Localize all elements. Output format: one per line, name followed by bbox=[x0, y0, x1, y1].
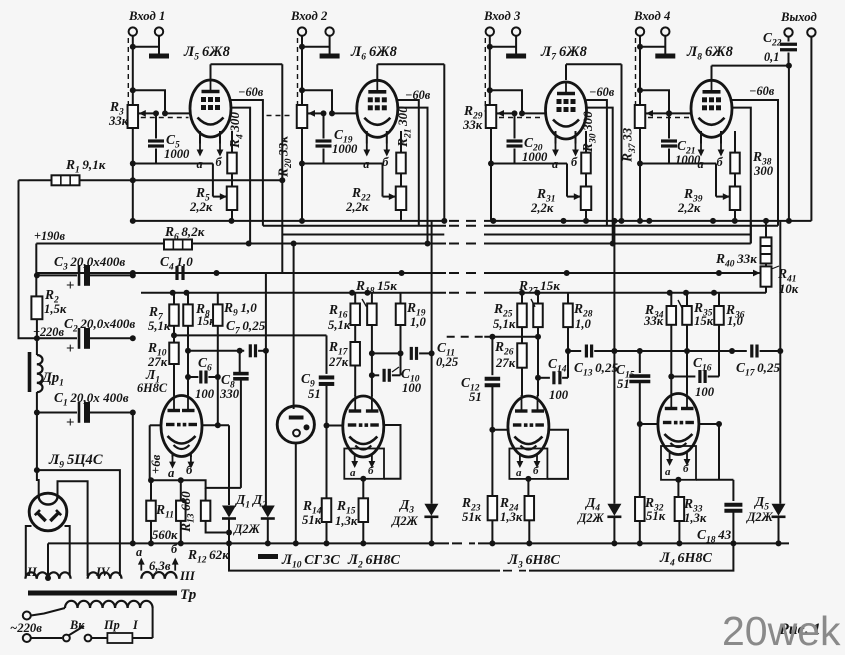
svg-text:−60в: −60в bbox=[749, 84, 775, 98]
resistor R17 27к bbox=[328, 325, 360, 396]
capacitor input stage 2 bbox=[316, 110, 332, 163]
resistor R7 5,1к bbox=[148, 293, 179, 333]
resistor R33 1,3к bbox=[675, 496, 707, 546]
svg-text:2,2к: 2,2к bbox=[345, 200, 369, 214]
wire input 2 down bbox=[299, 36, 305, 105]
svg-text:Выход: Выход bbox=[780, 10, 817, 24]
wire bus B1 (common line y=221) bbox=[133, 220, 812, 222]
svg-text:б: б bbox=[368, 465, 374, 477]
wire input 3 terminal2 to ground bbox=[490, 36, 516, 51]
wire R18 column to tube bbox=[369, 325, 375, 396]
svg-text:51к: 51к bbox=[302, 513, 322, 527]
svg-text:Д2Ж: Д2Ж bbox=[577, 511, 605, 525]
svg-text:560к: 560к bbox=[152, 528, 178, 542]
watermark 20wek bbox=[722, 608, 841, 654]
label R21 300 rotated bbox=[395, 106, 414, 148]
label cap C20 bbox=[522, 135, 548, 164]
svg-text:1,3к: 1,3к bbox=[335, 514, 358, 528]
wire bus B6 (y=293) bbox=[141, 292, 766, 294]
resistor R13a 680 bbox=[176, 477, 186, 546]
label Вход 1 bbox=[128, 9, 165, 23]
svg-text:~220в: ~220в bbox=[10, 621, 42, 635]
wire tube top-right to winding IV left lead bbox=[58, 481, 88, 576]
svg-text:б: б bbox=[571, 155, 578, 169]
diode D3 (Д3 Д2Ж) bbox=[391, 221, 438, 547]
wire R28 column down bbox=[565, 327, 571, 378]
label pot R29 bbox=[462, 103, 483, 132]
svg-text:1000: 1000 bbox=[332, 142, 358, 156]
svg-text:Д2Ж: Д2Ж bbox=[746, 510, 774, 524]
svg-text:100: 100 bbox=[549, 388, 569, 402]
resistor R15 1,3к bbox=[335, 498, 368, 546]
label ~220в bbox=[10, 621, 42, 635]
svg-text:20wek: 20wek bbox=[722, 608, 841, 654]
svg-text:а: а bbox=[350, 467, 356, 479]
label Л1 6Н8С bbox=[137, 367, 168, 395]
potentiometer input stage 3 bbox=[486, 105, 497, 128]
svg-text:5,1к: 5,1к bbox=[148, 319, 171, 333]
wire -60v stage 1 bbox=[231, 100, 263, 226]
svg-text:б: б bbox=[717, 155, 724, 169]
svg-text:Л10 СГ 3С: Л10 СГ 3С bbox=[281, 552, 340, 571]
svg-text:2,2к: 2,2к bbox=[189, 200, 213, 214]
svg-text:330: 330 bbox=[219, 387, 240, 401]
label Л9 5Ц4С bbox=[48, 452, 103, 471]
wire anode 2 bbox=[377, 64, 444, 80]
svg-text:б: б bbox=[171, 542, 178, 556]
transformer winding IV bbox=[88, 565, 122, 579]
svg-text:1,0: 1,0 bbox=[410, 315, 427, 329]
svg-text:Л4 6Н8С: Л4 6Н8С bbox=[659, 550, 712, 569]
transformer core bbox=[28, 587, 197, 603]
wire output pin2 down bbox=[810, 37, 812, 221]
wire grid jog 4 bbox=[640, 90, 672, 116]
svg-text:51к: 51к bbox=[462, 510, 482, 524]
svg-text:2,2к: 2,2к bbox=[677, 201, 701, 215]
svg-text:51: 51 bbox=[617, 377, 630, 391]
label R38 300 bbox=[752, 149, 774, 178]
wire +190v rail corner at x=36.3 bbox=[35, 244, 37, 297]
wire anode column stage 3 bbox=[619, 64, 625, 224]
label Л3 6Н8С bbox=[507, 552, 560, 571]
resistor R40 33к bbox=[715, 221, 772, 270]
anode line left of Л1 box top bbox=[150, 424, 161, 426]
capacitor C7 0,25 bbox=[185, 344, 266, 357]
svg-text:51: 51 bbox=[469, 390, 482, 404]
wire input 3 down bbox=[487, 36, 493, 105]
anode line right of Л2 bbox=[384, 425, 401, 479]
svg-text:27к: 27к bbox=[495, 356, 516, 370]
pentode tube Л6 (6Ж8) bbox=[350, 44, 398, 137]
capacitor C12 51 bbox=[447, 334, 541, 430]
capacitor C22 0,1 bbox=[763, 30, 797, 66]
label +6в rotated bbox=[149, 454, 163, 474]
resistor R28 1,0 bbox=[563, 293, 593, 331]
label cathode pot R39 bbox=[677, 186, 703, 215]
filament arrows Л3 bbox=[516, 455, 540, 479]
wire screen stage 1 bbox=[231, 108, 250, 244]
svg-text:Л6 6Ж8: Л6 6Ж8 bbox=[350, 44, 398, 63]
svg-text:II: II bbox=[26, 565, 38, 579]
wire bottom bus B7 bbox=[48, 542, 789, 544]
potentiometer input stage 2 bbox=[297, 105, 308, 128]
wire x=36.3 below R2 bbox=[36, 319, 38, 355]
svg-text:10к: 10к bbox=[779, 282, 799, 296]
wire B7 left end to winding II centre tap bbox=[45, 543, 51, 581]
svg-text:100: 100 bbox=[195, 387, 215, 401]
wire grid2 bypass feed line y=335 bbox=[171, 332, 327, 338]
wire -60v stage 3 bbox=[587, 100, 607, 226]
svg-text:б: б bbox=[533, 465, 539, 477]
svg-text:Вход 2: Вход 2 bbox=[290, 9, 328, 23]
svg-text:−60в: −60в bbox=[405, 88, 431, 102]
svg-text:−60в: −60в bbox=[238, 85, 264, 99]
box around Л4 cathode area bbox=[661, 446, 696, 480]
wire R9 column bbox=[215, 326, 221, 429]
capacitor input stage 1 bbox=[148, 110, 164, 163]
wire Л2 cathode to R15 bbox=[360, 476, 366, 499]
wire input 4 terminal2 to ground bbox=[640, 36, 665, 51]
wire anode 3 bbox=[566, 64, 622, 80]
label cathode pot R31 bbox=[530, 186, 556, 215]
label pot R20 rotated bbox=[276, 136, 295, 178]
label -60в stage 1 bbox=[238, 85, 264, 99]
resistor 300 stage 1 bbox=[227, 131, 237, 173]
svg-text:33к: 33к bbox=[462, 118, 483, 132]
wire grid jog 3 bbox=[490, 90, 525, 116]
svg-text:а: а bbox=[197, 157, 203, 171]
capacitor C16 100 bbox=[671, 355, 719, 399]
ground input 3 bbox=[506, 51, 526, 56]
svg-text:б: б bbox=[382, 155, 389, 169]
svg-text:0,25: 0,25 bbox=[436, 355, 459, 369]
wire cathode-feedback line 3 bbox=[488, 128, 581, 200]
junction dots on B6 bbox=[170, 290, 717, 296]
label cap C5 bbox=[164, 132, 190, 161]
label cathode pot R22 bbox=[345, 185, 371, 214]
wire rectifier cathode rail to tube top bbox=[34, 392, 40, 497]
anode line right of Л4 bbox=[699, 421, 722, 480]
pentode tube Л8 (6Ж8) bbox=[686, 44, 734, 137]
svg-text:1,5к: 1,5к bbox=[44, 302, 67, 316]
wire box bottom to C18 bbox=[696, 479, 733, 481]
svg-text:27к: 27к bbox=[328, 355, 349, 369]
filament arrows Л2 bbox=[350, 455, 375, 479]
label Д1 Д2 bbox=[234, 492, 267, 511]
svg-text:+6в: +6в bbox=[149, 454, 163, 474]
cathode pot stage 3 bbox=[581, 173, 592, 221]
input terminal Вход4 pin 2 bbox=[661, 27, 669, 35]
capacitor C3 (20,0x400в) bbox=[34, 254, 136, 294]
wire pot column 1 to B1 bbox=[132, 164, 134, 221]
junction dots on B4 bbox=[246, 241, 616, 247]
capacitor C1 (20,0x400в) bbox=[34, 390, 136, 431]
diode D4 (Д4 Д2Ж) bbox=[577, 221, 621, 547]
potentiometer R41 10к bbox=[716, 264, 799, 297]
capacitor C8 330 bbox=[219, 351, 249, 488]
voltage regulator tube Л10 (СГ3С) bbox=[277, 406, 314, 443]
wire cathode-feedback line 4 bbox=[637, 128, 730, 200]
cathode pot stage 1 bbox=[227, 173, 238, 221]
svg-text:Д2Ж: Д2Ж bbox=[391, 514, 419, 528]
svg-text:33к: 33к bbox=[643, 314, 664, 328]
wire bus B2 (-60v line y=226) bbox=[263, 225, 778, 227]
wire R19 column down bbox=[398, 325, 404, 375]
choke Dr1 (Др1) bbox=[30, 352, 64, 392]
wire input 2 shield dashed bbox=[297, 38, 299, 112]
wire bus B4 (+190v rail) bbox=[36, 221, 751, 244]
fuse Pr (Пр) bbox=[91, 608, 152, 643]
label cap C19 bbox=[332, 127, 358, 156]
svg-text:100: 100 bbox=[695, 385, 715, 399]
wire -60v stage 2 bbox=[398, 100, 419, 226]
svg-text:1000: 1000 bbox=[522, 150, 548, 164]
wire lower terminal to switch bbox=[31, 637, 62, 639]
filament arrows Л1 bbox=[168, 454, 194, 480]
svg-text:1,0: 1,0 bbox=[575, 317, 592, 331]
svg-text:1,3к: 1,3к bbox=[684, 511, 707, 525]
capacitor C17 0,25 bbox=[687, 345, 780, 379]
resistor R34 33к bbox=[643, 293, 676, 394]
svg-text:IV: IV bbox=[95, 565, 111, 579]
label +190в bbox=[34, 229, 65, 243]
winding III terminal a arrow bbox=[136, 545, 145, 571]
wire anode 4 to C22 bbox=[712, 63, 792, 80]
input terminal Вход1 pin 2 bbox=[155, 27, 163, 35]
wire left feedback rail x=18.5 bbox=[19, 180, 37, 338]
label -60в stage 4 bbox=[749, 84, 775, 98]
label +220в bbox=[33, 325, 64, 339]
wire cathode-feedback line 2 bbox=[299, 128, 396, 200]
wire anode column stage 1 bbox=[281, 64, 283, 273]
svg-text:а: а bbox=[552, 157, 558, 171]
svg-text:1,3к: 1,3к bbox=[500, 510, 523, 524]
wire input 1 shield dashed bbox=[127, 38, 129, 112]
resistor R26 27к bbox=[494, 327, 527, 396]
potentiometer input stage 4 bbox=[635, 105, 646, 128]
rectifier tube L9 (Л9) bbox=[29, 493, 67, 531]
wire grid 2 with wiper arrow bbox=[267, 110, 357, 117]
resistor 300 stage 4 bbox=[730, 131, 740, 173]
pentode tube Л5 (6Ж8) bbox=[183, 44, 231, 137]
filament arrows stage 2 bbox=[363, 131, 390, 171]
wire bottom return B8 bbox=[229, 543, 733, 570]
label R4 300 rotated bbox=[227, 112, 246, 149]
cathode pot stage 2 bbox=[396, 173, 407, 221]
wire R8 column to tube bbox=[185, 326, 191, 396]
capacitor input stage 3 bbox=[507, 110, 523, 163]
resistor R9 1,0 bbox=[213, 293, 257, 326]
capacitor C4 1,0 bbox=[130, 254, 570, 280]
winding III terminal b arrow bbox=[171, 542, 179, 571]
triode tube Л1 (6Н8С) bbox=[161, 395, 202, 457]
input terminal Вход1 pin 1 bbox=[129, 27, 137, 35]
svg-text:0,1: 0,1 bbox=[764, 50, 779, 64]
diode D2 (Д2 Д2Ж) bbox=[261, 273, 275, 546]
caption Рис. 1 bbox=[778, 621, 821, 638]
wire bus B5 (y=273) bbox=[36, 272, 754, 274]
svg-text:б: б bbox=[186, 463, 193, 477]
svg-text:Тр: Тр bbox=[180, 587, 197, 603]
resistor R32 51к bbox=[635, 495, 666, 546]
svg-text:Л9 5Ц4С: Л9 5Ц4С bbox=[48, 452, 103, 471]
wire anode column stage 4 bbox=[788, 66, 790, 221]
svg-text:51к: 51к bbox=[646, 509, 666, 523]
svg-text:−60в: −60в bbox=[589, 85, 615, 99]
svg-text:5,1к: 5,1к bbox=[328, 318, 351, 332]
triode tube Л4 (6Н8С) bbox=[658, 393, 713, 569]
resistor R10 27к bbox=[147, 326, 179, 396]
diode D1 (Д1 Д2Ж) bbox=[222, 505, 236, 547]
output terminal Выход pin2 bbox=[807, 28, 815, 36]
wire input 1 terminal2 to ground bbox=[133, 36, 159, 51]
svg-text:Д2Ж: Д2Ж bbox=[233, 522, 261, 536]
svg-text:Вход 1: Вход 1 bbox=[128, 9, 165, 23]
svg-text:6,3в: 6,3в bbox=[149, 559, 171, 573]
label -60в stage 3 bbox=[589, 85, 615, 99]
input terminal Вход3 pin 1 bbox=[486, 27, 494, 35]
wire screen stage 4 bbox=[732, 108, 751, 244]
wire input 2 terminal2 to ground bbox=[302, 36, 330, 51]
wire grid jog 1 bbox=[133, 90, 168, 116]
svg-text:51: 51 bbox=[308, 387, 321, 401]
resistor R19 1,0 bbox=[396, 293, 427, 329]
svg-text:Пр: Пр bbox=[103, 618, 120, 632]
svg-text:33к: 33к bbox=[108, 114, 129, 128]
capacitor C11 0,25 bbox=[372, 340, 459, 369]
svg-text:а: а bbox=[665, 466, 671, 478]
wire anode column stage 2 bbox=[441, 64, 447, 224]
capacitor C2 (20,0x400в) bbox=[34, 316, 136, 357]
svg-text:+190в: +190в bbox=[34, 229, 65, 243]
svg-text:1000: 1000 bbox=[164, 147, 190, 161]
label C7 0,25 bbox=[226, 318, 266, 337]
filament arrows stage 1 bbox=[197, 131, 224, 171]
svg-text:Вк: Вк bbox=[69, 618, 85, 632]
box around Л2 cathode area bbox=[344, 449, 384, 479]
wire pot column 3 to B1 bbox=[490, 164, 492, 221]
resistor R24 1,3к bbox=[499, 495, 534, 546]
svg-text:+: + bbox=[66, 278, 75, 294]
input terminal Вход2 pin 1 bbox=[298, 27, 306, 35]
capacitor input stage 4 bbox=[661, 110, 677, 163]
label Вход 4 bbox=[633, 9, 670, 23]
svg-text:Л8 6Ж8: Л8 6Ж8 bbox=[686, 44, 734, 63]
label cathode pot R5 bbox=[189, 185, 213, 214]
svg-text:+: + bbox=[66, 341, 75, 357]
resistor R8 15к bbox=[183, 293, 216, 328]
transformer winding II bbox=[25, 565, 70, 579]
svg-text:Вход 4: Вход 4 bbox=[633, 9, 670, 23]
svg-text:а: а bbox=[168, 466, 175, 480]
label R30 300 rotated bbox=[580, 111, 599, 153]
svg-text:15к: 15к bbox=[694, 314, 714, 328]
svg-text:б: б bbox=[683, 463, 689, 475]
ground under Д2 bbox=[258, 554, 278, 559]
label -60в stage 2 bbox=[405, 88, 431, 102]
wire pot column 2 to B1 bbox=[301, 164, 303, 221]
wire to winding IV right lead bbox=[37, 470, 120, 576]
wire grid 1 with wiper arrow bbox=[139, 110, 190, 118]
anode line right of Л3 bbox=[547, 430, 568, 479]
label Вход 3 bbox=[483, 9, 520, 23]
label Вход 2 bbox=[290, 9, 328, 23]
label Д2Ж bbox=[233, 522, 261, 536]
anode line right of Л1 bbox=[202, 424, 229, 426]
label Выход bbox=[780, 10, 817, 24]
wire grid 4 with wiper arrow bbox=[646, 110, 691, 118]
resistor R16 5,1к bbox=[328, 293, 360, 332]
svg-text:1,0: 1,0 bbox=[727, 314, 744, 328]
wire bus B3 (y=234.5) bbox=[282, 234, 751, 236]
input terminal Вход4 pin 1 bbox=[636, 27, 644, 35]
resistor R1 9,1к bbox=[19, 157, 286, 185]
ground input 2 bbox=[320, 51, 340, 56]
triode tube Л2 (6Н8С) bbox=[343, 395, 401, 571]
label R23 51к bbox=[461, 495, 482, 524]
resistor R14 51к bbox=[302, 498, 331, 546]
terminal ~220v upper bbox=[23, 612, 31, 620]
capacitor C13 0,25 bbox=[568, 345, 687, 379]
resistor R25 5,1к bbox=[493, 293, 527, 331]
capacitor C18 43 bbox=[697, 480, 742, 547]
resistor R18 15к (pot) bbox=[355, 278, 397, 325]
capacitor C9 51 bbox=[301, 335, 334, 425]
wire Л10 anode feed bbox=[293, 244, 295, 410]
svg-text:а: а bbox=[136, 545, 142, 559]
label Л10 СГ3С bbox=[281, 552, 340, 571]
resistor R36 1,0 bbox=[714, 293, 745, 377]
filament arrows Л4 bbox=[665, 453, 690, 478]
svg-text:а: а bbox=[516, 467, 522, 479]
wire main left rail to bottom bus bbox=[130, 413, 136, 547]
input terminal Вход3 pin 2 bbox=[512, 27, 520, 35]
wire input 4 shield dashed bbox=[635, 38, 637, 112]
label cap C21 bbox=[675, 138, 701, 167]
label 6,3в bbox=[149, 559, 171, 573]
svg-text:Л3 6Н8С: Л3 6Н8С bbox=[507, 552, 560, 571]
svg-text:а: а bbox=[698, 157, 704, 171]
svg-text:5,1к: 5,1к bbox=[493, 317, 516, 331]
resistor R23 51к bbox=[488, 427, 498, 547]
box around Л1 cathode area bbox=[150, 425, 241, 504]
resistor R6 8,2к bbox=[164, 224, 205, 250]
wire Л4 cathode to R33 bbox=[675, 477, 681, 497]
pentode tube Л7 (6Ж8) bbox=[540, 44, 588, 139]
box around Л3 cathode area bbox=[509, 449, 547, 479]
label pot R3 bbox=[108, 99, 129, 128]
resistor R11 560к bbox=[146, 477, 178, 546]
svg-text:+: + bbox=[66, 415, 75, 431]
svg-text:III: III bbox=[179, 569, 196, 583]
ground input 1 bbox=[149, 51, 169, 56]
diode D5 (Д5 Д2Ж) bbox=[746, 221, 786, 547]
label R12 62к bbox=[187, 547, 229, 566]
resistor R2 bbox=[31, 287, 66, 319]
cathode pot stage 4 bbox=[730, 173, 741, 221]
potentiometer input stage 1 bbox=[128, 105, 139, 128]
anode line left of Л2 bbox=[327, 425, 343, 427]
switch Vk (Вк) bbox=[63, 618, 91, 641]
wire rectifier heater leads bbox=[26, 526, 70, 576]
wire Л10 cathode to bus bbox=[293, 443, 299, 546]
svg-text:Л7 6Ж8: Л7 6Ж8 bbox=[540, 44, 588, 63]
capacitor C10 100 bbox=[372, 366, 422, 395]
wire Л3 cathode to R24 bbox=[525, 476, 531, 496]
transformer primary winding I bbox=[65, 601, 153, 608]
wire input 4 down bbox=[637, 36, 643, 105]
capacitor C15 51 bbox=[616, 348, 650, 497]
